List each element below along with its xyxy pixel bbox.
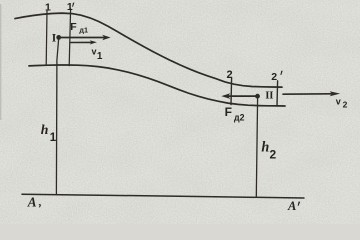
svg-text:A: A <box>287 199 296 213</box>
height line h2 <box>256 98 257 196</box>
svg-text:h: h <box>41 122 49 137</box>
svg-text:д2: д2 <box>234 112 245 122</box>
svg-text:2: 2 <box>227 69 233 81</box>
svg-text:I: I <box>52 33 57 45</box>
svg-text:1: 1 <box>97 51 103 62</box>
section line 1 <box>45 11 48 65</box>
force arrow F_d2 shaft <box>228 95 258 97</box>
scan left edge shading <box>0 4 1 120</box>
point II dot <box>255 94 260 99</box>
svg-text:1: 1 <box>50 132 57 144</box>
velocity arrow v2 shaft <box>283 93 331 95</box>
arrowhead F_d2 <box>221 93 230 99</box>
section line 1' <box>69 9 70 66</box>
bottom stream boundary curve <box>29 65 285 106</box>
svg-text:2: 2 <box>271 71 277 83</box>
svg-text:II: II <box>265 90 273 102</box>
svg-text:F: F <box>225 105 232 119</box>
svg-text:2: 2 <box>270 148 277 162</box>
arrowhead F_d1 <box>102 35 110 40</box>
svg-text:A: A <box>27 195 37 210</box>
svg-text:2: 2 <box>343 100 348 110</box>
datum baseline A-A' <box>22 194 304 198</box>
arrowhead v1 <box>90 40 97 44</box>
svg-text:F: F <box>70 21 77 33</box>
svg-text:д1: д1 <box>79 25 88 34</box>
point I dot <box>56 35 61 40</box>
section line 2 <box>230 78 233 104</box>
svg-text:h: h <box>261 140 269 156</box>
force arrow F_d1 shaft <box>59 37 105 39</box>
arrowhead v2 <box>330 91 341 96</box>
svg-text:1: 1 <box>67 1 73 13</box>
svg-text:v: v <box>336 96 341 106</box>
svg-text:1: 1 <box>45 1 51 13</box>
velocity arrow v1 shaft <box>70 41 92 43</box>
height line h1 <box>56 40 58 194</box>
section line 2' <box>276 81 279 106</box>
svg-text:v: v <box>92 46 97 56</box>
top stream boundary curve <box>15 13 282 87</box>
